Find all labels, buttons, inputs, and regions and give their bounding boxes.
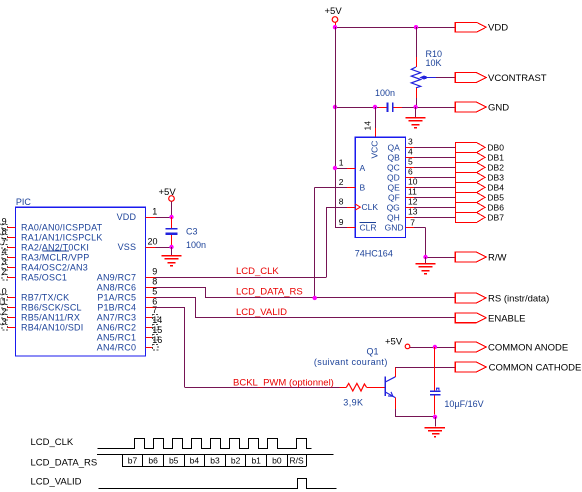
terminal comb DB0-DB7 outline [456, 143, 485, 223]
svg-text:RB6/SCK/SCL: RB6/SCK/SCL [21, 302, 82, 312]
PIC pin 2 RA5/OSC1 [2, 266, 68, 282]
capacitor C3 100n [166, 217, 207, 250]
svg-text:4: 4 [2, 246, 7, 256]
svg-text:10µF/16V: 10µF/16V [444, 399, 483, 409]
PIC pin 19 RA0/AN0/ICSPDAT [0, 216, 103, 232]
svg-text:Q1: Q1 [367, 347, 379, 357]
svg-text:ENABLE: ENABLE [488, 313, 526, 324]
74HC164 pin 2 B [315, 177, 366, 192]
svg-text:COMMON ANODE: COMMON ANODE [488, 343, 568, 354]
PIC pin 17 RA2/AN2/T0CKI [0, 236, 89, 252]
svg-text:3: 3 [2, 256, 7, 266]
PIC pin 8 AN8/RC6 [97, 276, 158, 292]
74HC164 pin 11 QF [388, 186, 456, 202]
capacitor 100n [375, 88, 402, 112]
node junction rail x335 [333, 105, 337, 109]
svg-text:9: 9 [152, 266, 157, 276]
svg-text:PIC: PIC [16, 197, 32, 207]
wire pin14 VCC branch [363, 107, 376, 137]
PIC pin 15 AN5/RC1 [97, 325, 163, 342]
svg-text:DB2: DB2 [487, 163, 504, 173]
svg-text:LCD_DATA_RS: LCD_DATA_RS [31, 458, 98, 469]
svg-text:RA1/AN1/ICSPCLK: RA1/AN1/ICSPCLK [21, 232, 103, 242]
74HC164 pin 6 QD [387, 166, 456, 182]
svg-text:LCD_CLK: LCD_CLK [31, 437, 74, 448]
terminal DB4 [487, 183, 504, 193]
74HC164 pin 9 CLR with overline [335, 217, 377, 232]
svg-text:12: 12 [0, 306, 7, 316]
svg-text:RA4/OSC2/AN3: RA4/OSC2/AN3 [21, 262, 88, 272]
svg-text:RB5/AN11/RX: RB5/AN11/RX [21, 312, 80, 322]
svg-text:17: 17 [0, 236, 7, 246]
node junction RW gnd [423, 255, 427, 259]
node junction +5V top left [333, 25, 337, 29]
svg-text:RA0/AN0/ICSPDAT: RA0/AN0/ICSPDAT [21, 222, 103, 232]
svg-text:18: 18 [0, 226, 7, 236]
terminal DB2 [487, 163, 504, 173]
svg-text:QF: QF [388, 193, 400, 203]
svg-text:LCD_DATA_RS: LCD_DATA_RS [236, 287, 303, 298]
svg-text:RS (instr/data): RS (instr/data) [488, 293, 549, 304]
svg-text:RA3/MCLR/VPP: RA3/MCLR/VPP [21, 252, 89, 262]
svg-text:GND: GND [385, 222, 404, 232]
svg-text:10: 10 [0, 286, 7, 296]
node junction R10 tap [414, 25, 418, 29]
svg-text:19: 19 [0, 216, 7, 226]
wire net LCD_CLK [156, 207, 327, 277]
svg-text:DB5: DB5 [487, 193, 504, 203]
svg-text:b1: b1 [251, 456, 261, 466]
terminal GND [455, 102, 509, 113]
terminal DB5 [487, 193, 504, 203]
svg-text:B: B [360, 182, 366, 192]
svg-text:QH: QH [387, 213, 400, 223]
svg-text:b6: b6 [148, 456, 158, 466]
svg-text:AN6/RC2: AN6/RC2 [97, 322, 136, 332]
74HC164 pin 1 A [335, 158, 366, 173]
PIC pin 3 RA4/OSC2/AN3 [2, 256, 88, 272]
svg-text:VCONTRAST: VCONTRAST [488, 73, 547, 84]
wire net BCKL_PWM [156, 307, 340, 388]
svg-text:6: 6 [408, 166, 413, 176]
wire emitter to gnd junction [395, 416, 435, 418]
svg-text:GND: GND [488, 103, 509, 114]
svg-text:DB3: DB3 [487, 173, 504, 183]
svg-text:12: 12 [408, 196, 418, 206]
svg-text:7: 7 [410, 217, 415, 227]
ground symbol under C3 [162, 247, 182, 266]
wire +5V to COMMON ANODE [417, 347, 455, 349]
timing waveform LCD_CLK [98, 439, 312, 449]
op-amp U2 74HC164 shift register body [355, 137, 405, 237]
svg-text:LCD_VALID: LCD_VALID [236, 307, 287, 318]
svg-text:QB: QB [388, 153, 401, 163]
svg-text:C3: C3 [186, 227, 198, 237]
PIC microcontroller U1 body [16, 207, 146, 356]
svg-text:11: 11 [0, 296, 7, 306]
wire rail to VDD connector [416, 27, 455, 29]
svg-text:10: 10 [408, 176, 418, 186]
PIC pin 5 P1A/RC5 [97, 286, 157, 302]
svg-text:100n: 100n [375, 88, 395, 98]
svg-text:3: 3 [408, 136, 413, 146]
terminal DB0 [487, 143, 504, 153]
resistor R10 potentiometer [411, 27, 442, 107]
74HC164 pin 7 GND [385, 217, 426, 257]
PIC pin VDD 1 [117, 206, 172, 222]
74HC164 pin 10 QE [388, 176, 456, 192]
svg-text:9: 9 [339, 217, 344, 227]
svg-text:RB4/AN10/SDI: RB4/AN10/SDI [21, 322, 83, 332]
wire net LCD_DATA_RS [156, 188, 456, 298]
PIC pin 13 RB4/AN10/SDI [0, 316, 83, 332]
svg-text:RA5/OSC1: RA5/OSC1 [21, 272, 67, 282]
svg-text:DB6: DB6 [487, 203, 504, 213]
svg-text:QE: QE [388, 183, 401, 193]
ground symbol under pin7 [416, 257, 436, 274]
svg-text:10K: 10K [426, 58, 442, 68]
svg-text:A: A [360, 163, 366, 173]
svg-text:4: 4 [408, 146, 413, 156]
svg-text:(suivant courant): (suivant courant) [314, 357, 388, 367]
svg-text:15: 15 [152, 325, 162, 335]
74HC164 pin 8 CLK [326, 197, 378, 212]
terminal COMMON CATHODE [455, 362, 581, 373]
resistor 3,9K [340, 383, 386, 407]
node junction VDD C3 [169, 215, 173, 219]
svg-text:11: 11 [408, 186, 417, 196]
timing bus LCD_DATA_RS [97, 454, 333, 466]
svg-text:2: 2 [2, 266, 7, 276]
74HC164 pin 13 QH [387, 206, 456, 222]
svg-text:QG: QG [387, 203, 400, 213]
svg-text:b3: b3 [210, 456, 220, 466]
PIC pin 14 AN6/RC2 [97, 315, 163, 332]
+5V power terminal at PIC [159, 187, 177, 217]
transistor Q1 [314, 347, 396, 417]
svg-text:COMMON CATHODE: COMMON CATHODE [489, 363, 582, 374]
node junction DATA_RS to B [313, 296, 317, 300]
svg-text:R/S: R/S [290, 456, 305, 466]
svg-text:+5V: +5V [325, 6, 343, 17]
terminal COMMON ANODE [455, 342, 568, 353]
svg-text:b5: b5 [169, 456, 179, 466]
svg-text:AN7/RC3: AN7/RC3 [97, 312, 136, 322]
svg-text:1: 1 [339, 158, 344, 168]
svg-text:QA: QA [388, 143, 401, 153]
capacitor 10uF/16V [430, 347, 484, 415]
svg-text:b2: b2 [231, 456, 241, 466]
wire collector to COMMON CATHODE [395, 367, 455, 369]
PIC pin 9 AN9/RC7 [97, 266, 158, 282]
svg-text:3,9K: 3,9K [343, 398, 363, 408]
svg-text:R/W: R/W [488, 253, 507, 264]
wire pin7 junction to RW [426, 257, 456, 259]
svg-text:b4: b4 [190, 456, 200, 466]
svg-text:16: 16 [152, 335, 162, 345]
PIC pin 6 P1B/RC4 [97, 296, 157, 312]
wire +5V net vertical to A and CLR [335, 27, 337, 227]
terminal DB1 [487, 153, 504, 163]
PIC pin 11 RB6/SCK/SCL [0, 296, 82, 312]
svg-text:14: 14 [152, 315, 162, 325]
svg-text:RB7/TX/CK: RB7/TX/CK [21, 292, 69, 302]
svg-text:VDD: VDD [117, 212, 137, 222]
node junction emitter gnd [433, 415, 437, 419]
svg-text:DB7: DB7 [487, 213, 504, 223]
svg-text:b0: b0 [272, 456, 282, 466]
svg-text:VCC: VCC [370, 141, 380, 159]
svg-text:b7: b7 [128, 456, 138, 466]
svg-text:VDD: VDD [488, 23, 508, 34]
+5V power terminal top [325, 6, 343, 27]
terminal VDD [455, 22, 508, 33]
svg-text:2: 2 [339, 177, 344, 187]
svg-text:1: 1 [152, 206, 157, 216]
svg-text:13: 13 [408, 206, 418, 216]
PIC pin 7 AN7/RC3 [97, 305, 158, 322]
wire gnd rail left [335, 107, 379, 109]
PIC pin 16 AN4/RC0 [97, 335, 163, 352]
timing waveform LCD_VALID [99, 479, 337, 489]
PIC pin VSS 20 [118, 236, 172, 252]
svg-text:AN5/RC1: AN5/RC1 [97, 332, 136, 342]
node junction VSS [169, 245, 173, 249]
74HC164 pin 12 QG [387, 196, 456, 212]
node junction anode cap [433, 345, 437, 349]
terminal VCONTRAST [455, 73, 547, 84]
PIC pin 18 RA1/AN1/ICSPCLK [0, 226, 103, 242]
node junction A pin on +5V net [333, 166, 337, 170]
wire net LCD_VALID [156, 297, 456, 318]
node junction rail x375 pin14 tap [373, 105, 377, 109]
svg-text:QD: QD [387, 173, 400, 183]
svg-text:P1B/RC4: P1B/RC4 [97, 302, 136, 312]
ground symbol under rail [406, 107, 426, 128]
PIC pin 10 RB7/TX/CK [0, 286, 69, 302]
svg-text:8: 8 [339, 197, 344, 207]
svg-text:LCD_VALID: LCD_VALID [31, 477, 82, 488]
PIC pin 12 RB5/AN11/RX [0, 306, 80, 322]
svg-text:13: 13 [0, 316, 7, 326]
terminal R/W [455, 252, 506, 263]
svg-text:14: 14 [363, 121, 373, 131]
terminal DB3 [487, 173, 504, 183]
svg-text:100n: 100n [186, 240, 206, 250]
svg-text:AN8/RC6: AN8/RC6 [97, 282, 136, 292]
wire wiper to VCONTRAST [436, 77, 455, 79]
svg-text:VSS: VSS [118, 242, 137, 252]
terminal DB7 [487, 213, 504, 223]
ground symbol under Q1 [425, 417, 446, 437]
svg-text:P1A/RC5: P1A/RC5 [97, 292, 136, 302]
svg-text:AN9/RC7: AN9/RC7 [97, 272, 136, 282]
svg-text:LCD_CLK: LCD_CLK [236, 266, 279, 277]
svg-text:5: 5 [408, 156, 413, 166]
svg-text:74HC164: 74HC164 [355, 248, 393, 258]
svg-text:+5V: +5V [385, 336, 403, 347]
+5V power terminal at Q1 [385, 336, 417, 348]
terminal ENABLE [455, 313, 525, 324]
terminal RS (instr/data) [455, 293, 549, 304]
wire gnd rail right [402, 107, 455, 109]
svg-text:CLR: CLR [360, 222, 377, 232]
svg-text:AN4/RC0: AN4/RC0 [97, 342, 136, 352]
svg-text:QC: QC [387, 163, 400, 173]
svg-text:DB1: DB1 [487, 153, 504, 163]
74HC164 pin 5 QC [387, 156, 456, 172]
PIC pin 4 RA3/MCLR/VPP [2, 246, 90, 262]
svg-text:DB4: DB4 [487, 183, 504, 193]
svg-text:DB0: DB0 [487, 143, 504, 153]
svg-text:20: 20 [148, 236, 158, 246]
terminal DB6 [487, 203, 504, 213]
svg-text:CLK: CLK [362, 202, 379, 212]
svg-text:BCKL_PWM (optionnel): BCKL_PWM (optionnel) [233, 377, 334, 388]
wire +5V rail top [335, 27, 416, 29]
node junction rail x415.6 [413, 105, 417, 109]
74HC164 pin 4 QB [388, 146, 456, 162]
74HC164 pin 3 QA [388, 136, 456, 152]
svg-text:7: 7 [152, 305, 157, 315]
